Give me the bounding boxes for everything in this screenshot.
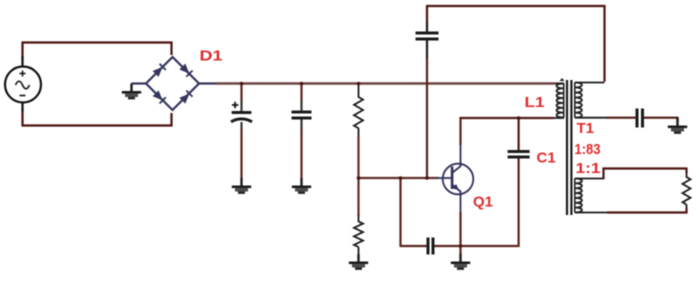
svg-text:D1: D1 [200,48,223,65]
svg-text:T1: T1 [577,120,595,137]
svg-text:C1: C1 [537,150,556,167]
svg-text:L1: L1 [525,94,545,111]
svg-text:1:1: 1:1 [576,160,601,177]
svg-text:1:83: 1:83 [575,141,601,158]
svg-text:Q1: Q1 [473,194,493,211]
